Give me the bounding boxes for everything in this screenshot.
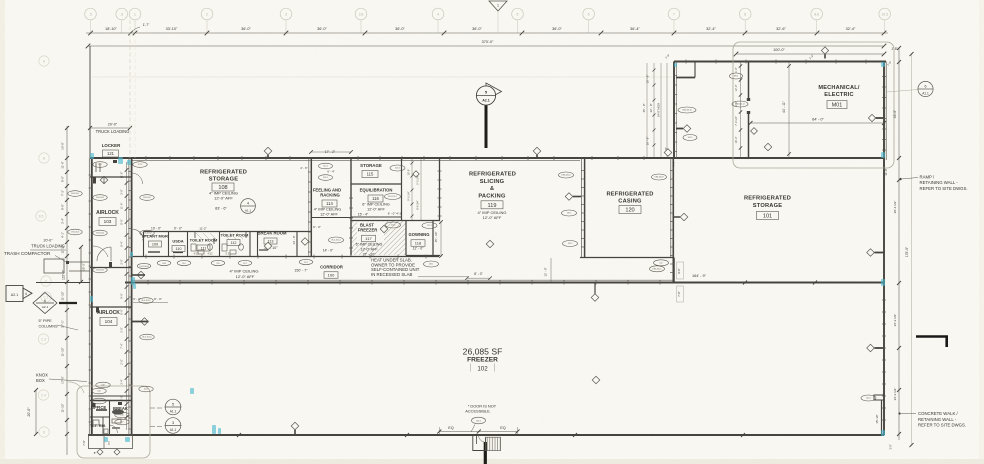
keynote triangle top center [489, 1, 507, 11]
circle marker 3/A1.1 [165, 418, 181, 434]
wall left x90 [89, 46, 91, 158]
bottom door recess [473, 435, 486, 451]
circle marker 5/A1.1 [165, 399, 181, 415]
top grid bubbles [85, 8, 97, 20]
circle marker 4/A1.1 [241, 199, 256, 214]
corridor top wall y256.5 [131, 256, 439, 258]
section marker 5/A2.1 top [486, 83, 502, 100]
casing right wall x672.5 [670, 158, 672, 258]
wall room108 right x310.5 [310, 158, 312, 257]
M01 tower left wall [673, 62, 675, 159]
right dimension line x899 [898, 48, 900, 440]
bottom wall ticks [237, 433, 241, 437]
gowning right wall x433 [432, 221, 434, 256]
20'-0 dim line lower left [35, 390, 37, 434]
toilet partition hatch marks [196, 233, 243, 239]
dock dashed lines [80, 247, 82, 282]
M01 tower top wall [674, 61, 886, 63]
left dimension line x81 [80, 247, 82, 282]
room row top wall y231.5 [144, 231, 312, 233]
door arc top truck dock [92, 246, 108, 257]
storage115 bottom wall y184 [351, 183, 402, 185]
room114 bottom wall y217.5 [311, 217, 351, 219]
door arc airlock 103 [97, 247, 111, 261]
airlock103 bottom wall y267.5 [90, 267, 132, 269]
blast freezer top wall y220.5 [351, 220, 440, 222]
left grid bubbles [39, 56, 49, 66]
gowning dim line [440, 221, 442, 257]
right wall step notch [874, 395, 884, 400]
right dimension line x911.5 [911, 54, 913, 445]
airlock104 top wall y307 [90, 306, 132, 308]
bottom vestibule hatch [486, 437, 501, 451]
freezer top wall y282.5 [125, 282, 884, 284]
gowning left wall x406 [405, 221, 407, 256]
casing-freezer step wall x674 [673, 258, 675, 283]
wall x439.5 room119 left [439, 158, 441, 221]
office block top wall [90, 400, 132, 402]
M01 closet stub [676, 77, 695, 79]
door arc corridor left [132, 229, 144, 241]
tag ovals corridor row [157, 260, 171, 265]
equil right wall x401.5 [401, 158, 403, 221]
airlock inner dimension line x126.5 [126, 162, 128, 430]
wall texture ticks [89, 174, 93, 176]
tag ovals casing area [559, 172, 574, 178]
door arc 108 upper [132, 173, 143, 184]
6/A1.1 elevation circle [918, 81, 933, 96]
office fixtures [93, 420, 99, 425]
rounded ref rect around M01 [733, 42, 894, 168]
airlock104 bottom wall y396 [90, 395, 132, 397]
64-0 dim line [751, 122, 885, 124]
airlock column right wall [131, 158, 133, 435]
wall bottom y434 [88, 434, 884, 436]
section cut line top [485, 106, 488, 149]
keynote diamond stubs [267, 155, 269, 158]
casing bottom wall y257.5 [580, 257, 674, 259]
M01 left chamber dim line [740, 62, 742, 158]
dim string right of 115 [411, 158, 413, 220]
M01 inner wall x748.5 [748, 62, 750, 101]
tlt rm wall [90, 416, 110, 418]
overall dimension 370'-0" [88, 45, 884, 47]
truck loading top dim [90, 127, 130, 129]
A2.1 4 flag marker [6, 286, 23, 302]
gowning bottom wall y255.5 [406, 255, 440, 257]
tag ovals airlock area [93, 162, 107, 168]
room row dividers [143, 232, 145, 257]
grid dashed line x130 [129, 20, 131, 158]
plant mgr fixtures [148, 251, 160, 253]
left dimension line x67 [66, 126, 68, 455]
toilet room fixtures [191, 244, 196, 251]
locker interior [95, 163, 97, 172]
6/A2.1 diamond marker [33, 293, 57, 314]
top dimension line [86, 32, 888, 34]
wall right x884 [883, 62, 885, 436]
dims left of tower [646, 63, 648, 157]
storage115 left wall x351 [350, 158, 352, 256]
office door arcs [110, 425, 118, 433]
equil bottom wall y217 [351, 216, 402, 218]
locker bottom wall y177 [90, 176, 132, 178]
heavy corner mark top-right of freezer [916, 335, 948, 338]
rounded ref rect around office [77, 386, 150, 458]
casing left wall x583 [581, 158, 583, 258]
keynote diamonds [264, 147, 272, 155]
office-break divider [109, 401, 111, 435]
cyan scan marks [118, 157, 123, 164]
wall main north y158 [90, 157, 884, 159]
section cut line bottom [484, 442, 487, 464]
break room fixtures [259, 249, 268, 251]
faint reference line [92, 76, 672, 78]
office lower extension [89, 435, 133, 449]
